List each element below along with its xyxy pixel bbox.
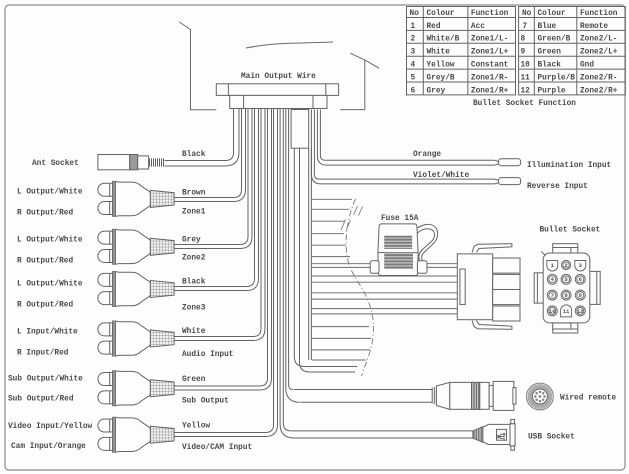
svg-text:L Input/White: L Input/White [17, 329, 78, 337]
wire: Violet/White reverse lead [319, 179, 495, 184]
remote plug strain ribs [432, 387, 436, 405]
antenna socket grip band [130, 155, 138, 170]
svg-text:Yellow: Yellow [182, 423, 210, 431]
svg-text:Fuse 15A: Fuse 15A [381, 215, 419, 223]
svg-text:Gnd: Gnd [580, 62, 594, 70]
svg-text:Zone1/R+: Zone1/R+ [471, 87, 509, 95]
svg-text:Acc: Acc [471, 23, 485, 31]
svg-text:Colour: Colour [427, 10, 455, 18]
wire: Orange illumination lead [325, 160, 495, 165]
svg-text:11: 11 [521, 74, 531, 82]
bullet socket bottom tab [553, 323, 578, 333]
wire: video/CAM cable (Yellow) [174, 109, 273, 433]
USB socket strain boot [473, 427, 483, 443]
wire: wired-remote cable vertical run [286, 109, 300, 403]
RCA pair connector: Zone1 L/R output [98, 181, 174, 216]
wire: sub output cable (Green) [174, 109, 267, 387]
svg-text:Yellow: Yellow [427, 62, 455, 70]
wired remote socket face (mini-DIN) [527, 383, 554, 410]
svg-text:6: 6 [411, 87, 416, 95]
power harness plug pin 1 [493, 258, 520, 273]
bullet socket top tab [553, 244, 578, 256]
svg-text:Purple/B: Purple/B [538, 74, 576, 82]
fuse holder F1 body [378, 224, 418, 276]
svg-text:Remote: Remote [580, 23, 608, 31]
power harness plug pin 4 [493, 306, 520, 321]
wires: leads running to power connector [312, 276, 457, 314]
wire: wired-remote cable horizontal run [294, 390, 432, 403]
svg-text:Video Input/Yellow: Video Input/Yellow [8, 423, 93, 431]
svg-text:Colour: Colour [538, 10, 566, 18]
wire: antenna coax (Black) [165, 109, 234, 161]
svg-text:9: 9 [521, 49, 526, 57]
bullet socket body [543, 253, 590, 323]
svg-text:Brown: Brown [182, 190, 206, 198]
table left half row lines [407, 18, 516, 83]
svg-text:1: 1 [411, 23, 416, 31]
USB socket shell [483, 424, 510, 444]
svg-text:Green/B: Green/B [538, 36, 571, 44]
svg-text:White/B: White/B [427, 36, 460, 44]
bullet socket left tab [534, 273, 545, 303]
svg-text:3: 3 [579, 263, 582, 269]
bullet socket pins 7-9 [547, 290, 557, 300]
antenna socket barrel [98, 155, 130, 170]
wire: USB cable vertical run [280, 109, 294, 439]
RCA pair connector: sub output [98, 371, 174, 406]
power harness plug housing [457, 254, 492, 320]
svg-text:Zone1: Zone1 [182, 209, 206, 217]
svg-text:Zone2/L+: Zone2/L+ [580, 49, 618, 57]
svg-text:R Output/Red: R Output/Red [17, 258, 73, 266]
svg-text:Illumination Input: Illumination Input [527, 162, 611, 170]
svg-text:6: 6 [579, 277, 582, 283]
bullet socket pins 10-12 [547, 306, 557, 316]
remote plug cone [436, 382, 449, 409]
svg-text:L Output/White: L Output/White [17, 189, 83, 197]
USB socket lower lug [511, 446, 515, 450]
antenna socket collar [138, 156, 149, 169]
svg-text:Function: Function [580, 10, 618, 18]
svg-text:Green: Green [182, 376, 206, 384]
remote plug neck [489, 385, 493, 406]
svg-text:Zone1/L+: Zone1/L+ [471, 49, 509, 57]
RCA pair connector: Zone2 L/R output [98, 229, 174, 264]
power harness plug pin 3 [493, 290, 520, 305]
svg-text:7: 7 [551, 293, 554, 299]
fuse holder F1 cable tabs [370, 261, 379, 274]
wires: lower fan of harness leads (cut short) [312, 327, 371, 360]
svg-text:Main Output Wire: Main Output Wire [241, 73, 316, 81]
svg-text:L Output/White: L Output/White [17, 237, 83, 245]
svg-text:Black: Black [182, 151, 206, 159]
svg-text:Blue: Blue [538, 23, 557, 31]
svg-text:Orange: Orange [413, 151, 441, 159]
remote plug barrel with knurl [450, 382, 480, 409]
wire: harness sheath to lower fan [294, 148, 357, 366]
table left half column lines [423, 7, 468, 95]
wire: Zone2 output cable (Grey) [174, 109, 248, 245]
wire: harness spine feeding right fan [309, 148, 312, 360]
svg-text:8: 8 [521, 36, 526, 44]
svg-text:White: White [427, 49, 451, 57]
svg-text:White: White [182, 328, 206, 336]
terminal lug: reverse input [499, 178, 521, 185]
svg-text:Grey: Grey [182, 237, 201, 245]
wire: Zone3 output cable (Black) [174, 109, 254, 287]
bullet socket right tab [590, 271, 601, 304]
svg-text:Sub Output/Red: Sub Output/Red [8, 396, 74, 404]
head unit chassis top edge (freehand) [246, 42, 333, 48]
svg-text:10: 10 [521, 62, 531, 70]
svg-text:Zone2: Zone2 [182, 255, 206, 263]
wire: Orange cable vertical run [317, 110, 326, 166]
USB socket icon plate [497, 429, 507, 440]
antenna socket strain-relief spring [150, 158, 164, 167]
svg-text:Zone2/R-: Zone2/R- [580, 74, 617, 82]
svg-text:Zone1/R-: Zone1/R- [471, 74, 508, 82]
svg-text:Zone3: Zone3 [182, 305, 206, 313]
svg-text:Audio Input: Audio Input [182, 351, 233, 359]
svg-text:Cam Input/Orange: Cam Input/Orange [11, 443, 86, 451]
wire: Violet/White cable vertical run [311, 110, 321, 184]
USB socket end plate [510, 424, 515, 446]
svg-text:Green: Green [538, 49, 562, 57]
svg-text:Sub Output/White: Sub Output/White [8, 376, 83, 384]
svg-text:Wired remote: Wired remote [560, 395, 616, 403]
svg-text:R Output/Red: R Output/Red [17, 210, 73, 218]
wire: Zone1 output cable (Brown) [174, 109, 241, 198]
USB trident icon [498, 433, 505, 439]
svg-text:11: 11 [563, 309, 569, 315]
RCA pair connector: video/cam input [98, 417, 174, 452]
svg-text:Function: Function [471, 10, 509, 18]
svg-text:4: 4 [411, 62, 416, 70]
fuse holder F1 wire loop handle [415, 224, 438, 260]
svg-text:7: 7 [523, 23, 528, 31]
power harness plug bottom latch [472, 321, 512, 330]
RCA pair connector: Zone3 L/R output [98, 272, 174, 307]
wire: fused power lead through fuse holder [312, 264, 457, 268]
table: pin function table right half outer border [519, 7, 626, 95]
bullet socket pins 4-6 [547, 274, 557, 284]
table right half column lines [534, 7, 577, 95]
harness sleeve [291, 110, 309, 149]
svg-text:10: 10 [549, 309, 555, 315]
head unit chassis outline, right corner [350, 53, 379, 68]
svg-text:3: 3 [411, 49, 416, 57]
svg-text:Bullet Socket: Bullet Socket [540, 227, 601, 235]
harness break line (dash-dot S curve) [346, 199, 373, 376]
svg-text:Black: Black [182, 279, 206, 287]
svg-text:9: 9 [579, 293, 582, 299]
svg-text:R Output/Red: R Output/Red [17, 302, 73, 310]
svg-text:5: 5 [411, 74, 416, 82]
svg-text:No: No [410, 10, 420, 18]
bullet socket pins 1-3 [547, 261, 558, 272]
USB socket upper lug [511, 419, 515, 423]
svg-text:8: 8 [564, 293, 567, 299]
table: pin function table left half outer border [407, 7, 516, 95]
svg-text:No: No [522, 10, 532, 18]
svg-text:Video/CAM Input: Video/CAM Input [182, 444, 252, 452]
svg-text:Grey: Grey [427, 87, 446, 95]
svg-text:Zone2/R+: Zone2/R+ [580, 87, 618, 95]
svg-text:1: 1 [551, 263, 554, 269]
svg-text:Red: Red [427, 23, 441, 31]
wire: audio input cable (White) [174, 109, 261, 337]
svg-text:12: 12 [521, 87, 531, 95]
power harness plug top latch [472, 244, 512, 253]
svg-text:12: 12 [577, 309, 583, 315]
RCA pair connector: audio L/R input [98, 321, 174, 356]
svg-text:Sub Output: Sub Output [182, 398, 229, 406]
svg-text:R Input/Red: R Input/Red [17, 350, 69, 358]
svg-text:Black: Black [538, 62, 562, 70]
main output wire connector, upper shell [216, 84, 338, 96]
main output wire connector, lower shell [230, 95, 327, 108]
svg-text:Zone2/L-: Zone2/L- [580, 36, 617, 44]
svg-text:Violet/White: Violet/White [413, 172, 469, 180]
remote plug coupling ring [493, 381, 514, 410]
bullet socket corner tick [541, 251, 545, 255]
svg-text:Purple: Purple [538, 87, 566, 95]
svg-text:2: 2 [564, 263, 567, 269]
table right half row lines [519, 18, 626, 83]
svg-text:2: 2 [411, 36, 416, 44]
svg-text:Zone1/L-: Zone1/L- [471, 36, 508, 44]
wires: upper fan of harness leads (cut short) [312, 199, 352, 256]
bullet socket pin numbers 1-12 [549, 263, 583, 315]
svg-text:5: 5 [564, 277, 567, 283]
terminal lug: illumination input [499, 159, 521, 166]
svg-text:Reverse Input: Reverse Input [527, 183, 588, 191]
svg-text:Bullet Socket Function: Bullet Socket Function [473, 100, 576, 108]
svg-text:USB Socket: USB Socket [528, 434, 575, 442]
svg-text:L Output/White: L Output/White [17, 281, 83, 289]
power harness plug pin 2 [493, 274, 520, 289]
svg-text:Constant: Constant [471, 62, 508, 70]
head unit chassis outline, left corner [179, 22, 216, 110]
svg-text:Grey/B: Grey/B [427, 74, 455, 82]
power harness plug keyway [460, 269, 465, 305]
svg-text:Ant Socket: Ant Socket [32, 160, 79, 168]
fuse holder F1 ribbed grip [384, 236, 412, 249]
break tick marks on harness break line [341, 206, 363, 231]
